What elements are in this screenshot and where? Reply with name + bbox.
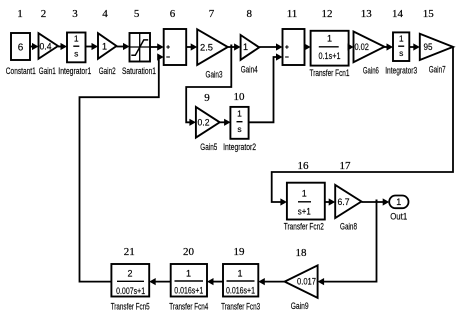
svg-text:0.2: 0.2 xyxy=(198,118,210,128)
wire tap down to Gain5 xyxy=(186,47,231,126)
svg-text:1: 1 xyxy=(186,269,191,279)
svg-text:6: 6 xyxy=(170,8,176,20)
transfer function Transfer Fcn2 xyxy=(284,183,325,232)
svg-text:95: 95 xyxy=(424,42,433,52)
wire Integrator3 to Gain7 xyxy=(409,43,420,50)
svg-text:6.7: 6.7 xyxy=(338,197,350,207)
transfer function Transfer Fcn4 xyxy=(169,264,208,312)
wire Gain4 to Sum2 upper input xyxy=(259,43,282,50)
transfer function Transfer Fcn1 xyxy=(310,31,350,78)
svg-text:s+1: s+1 xyxy=(298,207,311,217)
wire Gain8 to Out1 xyxy=(361,198,389,205)
svg-text:Gain3: Gain3 xyxy=(206,70,223,80)
svg-text:Gain1: Gain1 xyxy=(39,66,56,76)
integrator Integrator3 xyxy=(385,32,417,75)
wire Integrator2 to Sum2 lower input xyxy=(249,53,283,122)
wire feedback Transfer Fcn5 to Sum1 lower input xyxy=(80,53,164,281)
wire Constant1 to Gain1 xyxy=(30,43,39,50)
transfer function Transfer Fcn3 xyxy=(221,264,260,312)
gain Gain8 xyxy=(335,185,361,232)
wire Gain1 to Integrator1 xyxy=(58,43,67,50)
svg-text:2.5: 2.5 xyxy=(200,43,213,53)
svg-text:3: 3 xyxy=(72,8,78,20)
svg-text:0.016s+1: 0.016s+1 xyxy=(226,286,255,296)
constant block Constant1 xyxy=(6,33,36,76)
svg-text:Integrator1: Integrator1 xyxy=(58,66,91,76)
svg-text:13: 13 xyxy=(361,8,373,20)
svg-text:Saturation1: Saturation1 xyxy=(122,66,156,76)
svg-text:1: 1 xyxy=(243,42,248,52)
svg-text:1: 1 xyxy=(237,269,242,279)
wire Gain7 down and left to Transfer Fcn2 xyxy=(272,47,453,206)
saturation block Saturation1 xyxy=(122,33,156,76)
svg-text:Transfer Fcn2: Transfer Fcn2 xyxy=(284,222,324,232)
svg-text:2: 2 xyxy=(127,269,132,279)
svg-text:21: 21 xyxy=(124,246,135,258)
wire feedback Gain8 tap down to Gain9 xyxy=(318,202,377,285)
svg-text:1: 1 xyxy=(302,189,307,199)
svg-text:0.016s+1: 0.016s+1 xyxy=(174,286,203,296)
svg-text:20: 20 xyxy=(183,246,195,258)
transfer function Transfer Fcn5 xyxy=(111,264,150,312)
integrator Integrator1 xyxy=(58,33,91,77)
svg-text:Gain6: Gain6 xyxy=(363,66,379,76)
gain Gain1 xyxy=(39,33,59,76)
svg-text:Gain8: Gain8 xyxy=(340,222,357,232)
svg-text:6: 6 xyxy=(18,43,24,54)
svg-text:1: 1 xyxy=(396,197,401,207)
svg-text:1: 1 xyxy=(327,34,332,44)
svg-text:Gain7: Gain7 xyxy=(429,65,446,75)
wire Gain2 to Saturation1 xyxy=(117,43,130,50)
wire Gain3 to Gain4 xyxy=(228,43,241,50)
svg-text:1: 1 xyxy=(17,8,23,20)
svg-text:Transfer Fcn3: Transfer Fcn3 xyxy=(221,302,260,312)
svg-text:8: 8 xyxy=(247,8,253,20)
svg-text:Gain2: Gain2 xyxy=(99,66,116,76)
svg-text:10: 10 xyxy=(234,91,246,103)
junction tap on Gain3-Gain4 wire xyxy=(230,45,232,48)
svg-text:Transfer Fcn1: Transfer Fcn1 xyxy=(310,68,350,78)
svg-text:1: 1 xyxy=(102,42,107,52)
svg-text:Gain9: Gain9 xyxy=(291,301,309,311)
svg-text:12: 12 xyxy=(322,8,333,20)
svg-text:4: 4 xyxy=(102,8,108,20)
wire Transfer Fcn1 to Gain6 xyxy=(348,43,354,50)
wire Gain9 to Transfer Fcn3 xyxy=(258,278,284,285)
svg-text:Gain4: Gain4 xyxy=(241,65,258,75)
junction tap on Gain8-Out1 wire xyxy=(376,200,378,203)
wire Transfer Fcn2 to Gain8 xyxy=(325,198,335,205)
svg-text:0.02: 0.02 xyxy=(354,42,369,52)
gain Gain5 xyxy=(196,107,220,152)
svg-text:s: s xyxy=(237,124,241,134)
svg-text:Gain5: Gain5 xyxy=(200,142,217,152)
svg-text:14: 14 xyxy=(392,8,404,20)
svg-text:1: 1 xyxy=(399,34,404,44)
wire Gain5 to Integrator2 xyxy=(220,119,231,126)
wire Transfer Fcn3 to Transfer Fcn4 xyxy=(207,278,223,285)
svg-text:1: 1 xyxy=(237,109,242,119)
svg-text:9: 9 xyxy=(204,92,210,104)
sum block Sum2 xyxy=(283,29,305,65)
svg-text:Transfer Fcn5: Transfer Fcn5 xyxy=(111,302,150,312)
sum block Sum1 xyxy=(164,29,187,65)
svg-text:5: 5 xyxy=(134,8,140,20)
svg-text:1: 1 xyxy=(74,34,79,44)
wire Sum2 to Transfer Fcn1 xyxy=(304,43,311,50)
gain Gain4 xyxy=(241,35,260,75)
svg-text:18: 18 xyxy=(296,247,308,259)
svg-text:0.4: 0.4 xyxy=(40,42,52,52)
svg-text:Integrator3: Integrator3 xyxy=(385,66,417,76)
svg-text:19: 19 xyxy=(234,246,246,258)
svg-text:17: 17 xyxy=(340,160,352,172)
wire Gain6 to Integrator3 xyxy=(384,43,393,50)
gain Gain3 xyxy=(197,29,228,79)
integrator Integrator2 xyxy=(223,107,256,152)
gain Gain7 xyxy=(420,34,453,75)
gain Gain9 pointing left xyxy=(285,265,318,311)
wire Integrator1 to Gain2 xyxy=(85,43,98,50)
svg-text:16: 16 xyxy=(298,160,310,172)
svg-text:0.1s+1: 0.1s+1 xyxy=(319,51,341,61)
svg-text:11: 11 xyxy=(287,8,298,20)
wire Sum1 to Gain3 xyxy=(186,43,197,50)
svg-text:s: s xyxy=(74,49,78,59)
svg-text:0.007s+1: 0.007s+1 xyxy=(116,286,145,296)
svg-text:2: 2 xyxy=(41,8,47,20)
svg-text:Constant1: Constant1 xyxy=(6,66,36,76)
svg-text:0.017: 0.017 xyxy=(297,277,316,287)
gain Gain6 xyxy=(354,32,385,76)
svg-text:15: 15 xyxy=(423,8,435,20)
svg-text:Out1: Out1 xyxy=(390,212,407,222)
svg-text:Transfer Fcn4: Transfer Fcn4 xyxy=(169,302,208,312)
wire Saturation1 to Sum1 xyxy=(150,43,164,50)
gain Gain2 xyxy=(98,33,117,76)
outport Out1 xyxy=(389,196,408,222)
svg-text:Integrator2: Integrator2 xyxy=(223,142,256,152)
svg-text:s: s xyxy=(399,48,403,58)
svg-text:7: 7 xyxy=(209,8,215,20)
wire Transfer Fcn4 to Transfer Fcn5 xyxy=(149,278,171,285)
